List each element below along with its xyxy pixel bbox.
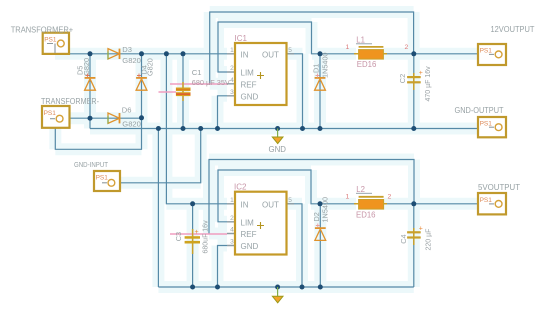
svg-text:2: 2 [388, 194, 392, 201]
svg-text:LIM: LIM [241, 68, 255, 77]
svg-text:D2: D2 [312, 212, 321, 221]
svg-text:ED16: ED16 [357, 60, 377, 69]
svg-text:IN: IN [241, 50, 249, 59]
op-amp regulator IC2 [235, 192, 287, 255]
connector PS1 TRANSFORMER- [42, 106, 70, 128]
node raw DC at C1 [181, 51, 186, 56]
wire IC1 OUT pin drop [287, 54, 303, 129]
node bottom rail at IC2 GND [215, 285, 220, 290]
svg-text:PS1: PS1 [480, 197, 493, 204]
connector PS1 12VOUTPUT [478, 44, 506, 65]
svg-text:D1: D1 [312, 64, 321, 73]
svg-text:4: 4 [230, 77, 234, 84]
node 5V feed at C3 top [190, 201, 195, 206]
svg-text:IC1: IC1 [235, 34, 248, 43]
node 5V at C4 top [411, 201, 416, 206]
wire IC2 REF pink segment [170, 233, 227, 235]
wire bottom ground rail [158, 286, 413, 288]
svg-text:GND-OUTPUT: GND-OUTPUT [455, 106, 504, 115]
svg-text:PS1: PS1 [44, 110, 57, 117]
node gnd rail at GND symbol [275, 126, 280, 131]
svg-text:GND: GND [269, 144, 287, 154]
diode D4 [136, 78, 147, 90]
svg-text:3: 3 [230, 89, 234, 96]
wire C3 branch vertical [192, 204, 194, 287]
svg-text:4: 4 [230, 227, 234, 234]
svg-text:5: 5 [288, 47, 292, 54]
svg-text:C1: C1 [192, 68, 202, 77]
svg-text:+: + [419, 225, 423, 232]
pin stubs IC1 [227, 54, 294, 96]
svg-text:1N5400: 1N5400 [320, 52, 329, 78]
wire TRANSFORMER- to ground rail stub [89, 118, 91, 128]
svg-text:GND-INPUT: GND-INPUT [74, 160, 108, 169]
svg-text:GND: GND [241, 92, 259, 101]
connector PS1 GND-INPUT [94, 171, 120, 191]
node 5V at D2 top [318, 201, 323, 206]
wire IC2 GND pin net [218, 246, 228, 288]
svg-text:1N5400: 1N5400 [321, 197, 330, 223]
svg-text:PS1: PS1 [480, 48, 493, 55]
svg-text:REF: REF [241, 230, 257, 239]
svg-text:G820: G820 [122, 56, 141, 65]
capacitor C1 [176, 82, 191, 101]
svg-text:IN: IN [241, 200, 249, 209]
node AC- at D4 bottom [139, 115, 144, 120]
wire C1 branch vertical [182, 54, 184, 129]
wire D2 branch vertical [319, 204, 321, 287]
wire 12V rail through L1 [320, 53, 478, 55]
svg-text:PS1: PS1 [96, 175, 109, 182]
svg-text:OUT: OUT [262, 200, 279, 209]
node 12V at C2 top [411, 51, 416, 56]
svg-text:5: 5 [288, 197, 292, 204]
svg-text:G820: G820 [82, 58, 91, 76]
wire AC+ rail from TRANSFORMER+ through D3 to IC1 IN [55, 53, 227, 55]
node gnd rail at C1 [181, 126, 186, 131]
wire GND-INPUT to ground rail [120, 129, 201, 183]
svg-text:REF: REF [241, 80, 257, 89]
svg-text:1: 1 [230, 47, 234, 54]
node gnd rail at D1 bottom [318, 126, 323, 131]
wire ground rail middle [90, 128, 478, 130]
wire IC1 REF pink segment [170, 83, 227, 85]
node gnd rail at GND-INPUT [198, 126, 203, 131]
svg-text:ED16: ED16 [356, 211, 376, 220]
diode D1 [315, 78, 326, 90]
inductor L1 [354, 47, 387, 59]
svg-text:D6: D6 [122, 106, 132, 115]
svg-text:680uF 16v: 680uF 16v [202, 220, 209, 254]
svg-text:680 µF 35V: 680 µF 35V [192, 78, 230, 87]
wire C1 pink segment [159, 91, 177, 93]
wire C4 branch vertical [413, 204, 415, 287]
svg-text:PS1: PS1 [480, 120, 493, 127]
wire TRANSFORMER- loop to D4 cathode [55, 118, 141, 150]
origin cross D4 [137, 74, 141, 78]
svg-text:C4: C4 [399, 234, 408, 243]
pin stubs IC2 [227, 204, 294, 246]
wire TRANSFORMER- rail through D6 [70, 117, 142, 119]
capacitor C4 [407, 225, 423, 245]
svg-text:12VOUTPUT: 12VOUTPUT [491, 25, 535, 34]
wire C2 branch vertical [413, 54, 415, 129]
svg-text:2: 2 [230, 65, 234, 72]
wire IC2 LIM net [218, 170, 320, 222]
wire D1 branch vertical [319, 54, 321, 129]
wire D4 branch vertical [141, 54, 143, 118]
node bottom rail at IC2 OUT drop [300, 285, 305, 290]
svg-text:G820: G820 [122, 119, 141, 128]
wire 5V rail through L2 [320, 203, 478, 205]
node raw DC at IC2 feed [164, 51, 169, 56]
svg-text:LIM: LIM [241, 218, 255, 227]
diode D5 [85, 78, 96, 90]
svg-text:2: 2 [230, 215, 234, 222]
svg-text:5VOUTPUT: 5VOUTPUT [478, 183, 520, 192]
svg-text:C3: C3 [174, 232, 183, 241]
node bottom rail at D2 bottom [318, 285, 323, 290]
wire IC1 GND pin net [218, 96, 228, 129]
wire IC2 REF feedback net [209, 160, 414, 234]
svg-text:1: 1 [346, 194, 350, 201]
node gnd rail at IC1 GND [215, 126, 220, 131]
svg-text:+: + [195, 229, 199, 236]
wire ground rail left drop [157, 129, 159, 288]
svg-text:D3: D3 [122, 45, 132, 54]
node bottom rail at C3 [190, 285, 195, 290]
connector PS1 GND-OUTPUT [478, 117, 506, 137]
node bottom rail at GND symbol [275, 285, 280, 290]
connector PS1 5VOUTPUT [478, 193, 506, 214]
svg-text:GND: GND [241, 242, 259, 251]
svg-text:L2: L2 [356, 185, 365, 194]
wire IC2 OUT pin drop [287, 204, 303, 287]
svg-text:1: 1 [346, 44, 350, 51]
node gnd rail left drop [156, 126, 161, 131]
node gnd rail at C2 bottom [411, 126, 416, 131]
ground symbol mid rail [272, 129, 283, 144]
svg-text:L1: L1 [356, 35, 365, 44]
node AC+ at D5 [88, 51, 93, 56]
svg-text:IC2: IC2 [234, 183, 247, 192]
wire D5 branch vertical [89, 54, 91, 118]
svg-text:TRANSFORMER+: TRANSFORMER+ [11, 24, 73, 34]
origin cross D5 [86, 74, 90, 78]
node AC+ at D4 [139, 51, 144, 56]
inductor L2 [354, 197, 387, 209]
svg-text:220 µF: 220 µF [425, 229, 432, 251]
svg-text:+: + [419, 70, 423, 77]
wire IC1 REF feedback net [210, 12, 414, 84]
diode D3 [108, 49, 120, 60]
diode D2 [315, 228, 326, 240]
svg-text:2: 2 [405, 44, 409, 51]
svg-text:1: 1 [230, 197, 234, 204]
capacitor C2 [407, 70, 423, 90]
ground symbol bottom rail [272, 287, 283, 303]
svg-text:G820: G820 [146, 58, 155, 76]
svg-text:PS1: PS1 [44, 37, 57, 44]
wire IC1 LIM net [218, 22, 320, 72]
node 12V at D1 top [318, 51, 323, 56]
connector PS1 TRANSFORMER+ [43, 33, 69, 54]
svg-text:TRANSFORMER-: TRANSFORMER- [41, 96, 99, 106]
label L2 [356, 192, 372, 194]
origin cross D1 [316, 74, 320, 78]
svg-text:470 µF 16v: 470 µF 16v [425, 66, 432, 102]
node AC- at D5 bottom [88, 116, 93, 121]
wire feed to IC2 IN [166, 54, 227, 204]
svg-text:C2: C2 [398, 74, 407, 83]
node gnd rail at IC1 OUT drop [300, 126, 305, 131]
op-amp regulator IC1 [235, 43, 287, 105]
origin cross D2 [316, 224, 320, 228]
capacitor C3 [185, 229, 200, 254]
svg-text:OUT: OUT [262, 50, 279, 59]
svg-text:3: 3 [230, 239, 234, 246]
label L1 [356, 43, 372, 45]
diode D6 [108, 113, 120, 124]
